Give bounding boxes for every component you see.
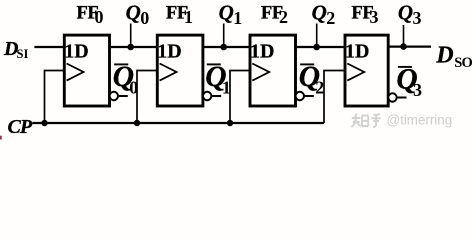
svg-text:D: D — [435, 42, 453, 68]
svg-text:3: 3 — [413, 8, 422, 28]
svg-text:Q: Q — [126, 1, 141, 25]
svg-text:2: 2 — [315, 78, 324, 98]
svg-text:3: 3 — [413, 80, 422, 100]
svg-text:2: 2 — [326, 8, 335, 28]
svg-text:0: 0 — [129, 78, 138, 98]
svg-text:Q: Q — [398, 1, 413, 25]
svg-text:Q: Q — [219, 1, 234, 25]
svg-text:@timerring: @timerring — [387, 113, 453, 128]
svg-text:0: 0 — [95, 7, 104, 27]
svg-text:1D: 1D — [345, 41, 369, 63]
svg-text:1D: 1D — [157, 41, 181, 63]
svg-text:2: 2 — [279, 7, 288, 27]
svg-text:Q: Q — [312, 1, 327, 25]
svg-text:1: 1 — [184, 7, 193, 27]
svg-text:SI: SI — [17, 47, 29, 61]
svg-text:1: 1 — [222, 78, 231, 98]
svg-text:1: 1 — [233, 8, 242, 28]
svg-text:CP: CP — [8, 116, 33, 138]
svg-text:3: 3 — [370, 7, 379, 27]
svg-text:SO: SO — [454, 55, 472, 71]
svg-text:1D: 1D — [64, 41, 88, 63]
svg-text:1D: 1D — [250, 41, 274, 63]
svg-text:0: 0 — [140, 8, 149, 28]
